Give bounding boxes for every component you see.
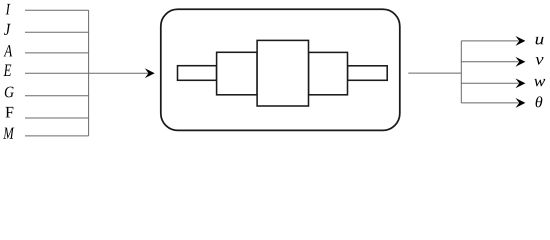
- input label G: [5, 87, 14, 98]
- arrowhead output v: [516, 57, 526, 67]
- output label theta: [536, 96, 543, 107]
- output label w: [534, 79, 545, 86]
- input label E: [4, 64, 12, 76]
- shaft segment left medium: [217, 52, 258, 95]
- wire input F: [25, 117, 89, 119]
- wire input J: [25, 31, 89, 33]
- output label v: [536, 57, 544, 64]
- wire model box to output bus: [408, 72, 461, 74]
- arrowhead output w: [516, 78, 526, 88]
- input label J: [4, 24, 11, 35]
- output label u: [536, 37, 544, 45]
- wire output w: [461, 82, 518, 84]
- input label M: [3, 128, 14, 139]
- input bus vertical wire: [88, 10, 90, 136]
- arrowhead into model box: [145, 68, 155, 78]
- arrowhead output u: [516, 36, 526, 46]
- shaft segment center large: [257, 40, 308, 106]
- wire input M: [25, 135, 89, 137]
- input label I: [6, 4, 11, 14]
- arrowhead output theta: [516, 98, 526, 108]
- wire input bus to model box: [89, 72, 149, 74]
- wire input E: [25, 72, 89, 74]
- input label A: [4, 45, 13, 56]
- shaft segment right thin: [348, 66, 388, 81]
- wire input A: [25, 52, 89, 54]
- output bus vertical wire: [460, 41, 462, 103]
- input label F: [6, 107, 14, 117]
- wire output theta: [461, 102, 518, 104]
- wire output v: [461, 61, 518, 63]
- shaft segment right medium: [309, 52, 348, 94]
- wire input G: [25, 95, 89, 97]
- model box rounded rectangle: [161, 9, 400, 130]
- wire input I: [25, 9, 89, 11]
- shaft segment left thin: [178, 66, 217, 81]
- wire output u: [461, 40, 518, 42]
